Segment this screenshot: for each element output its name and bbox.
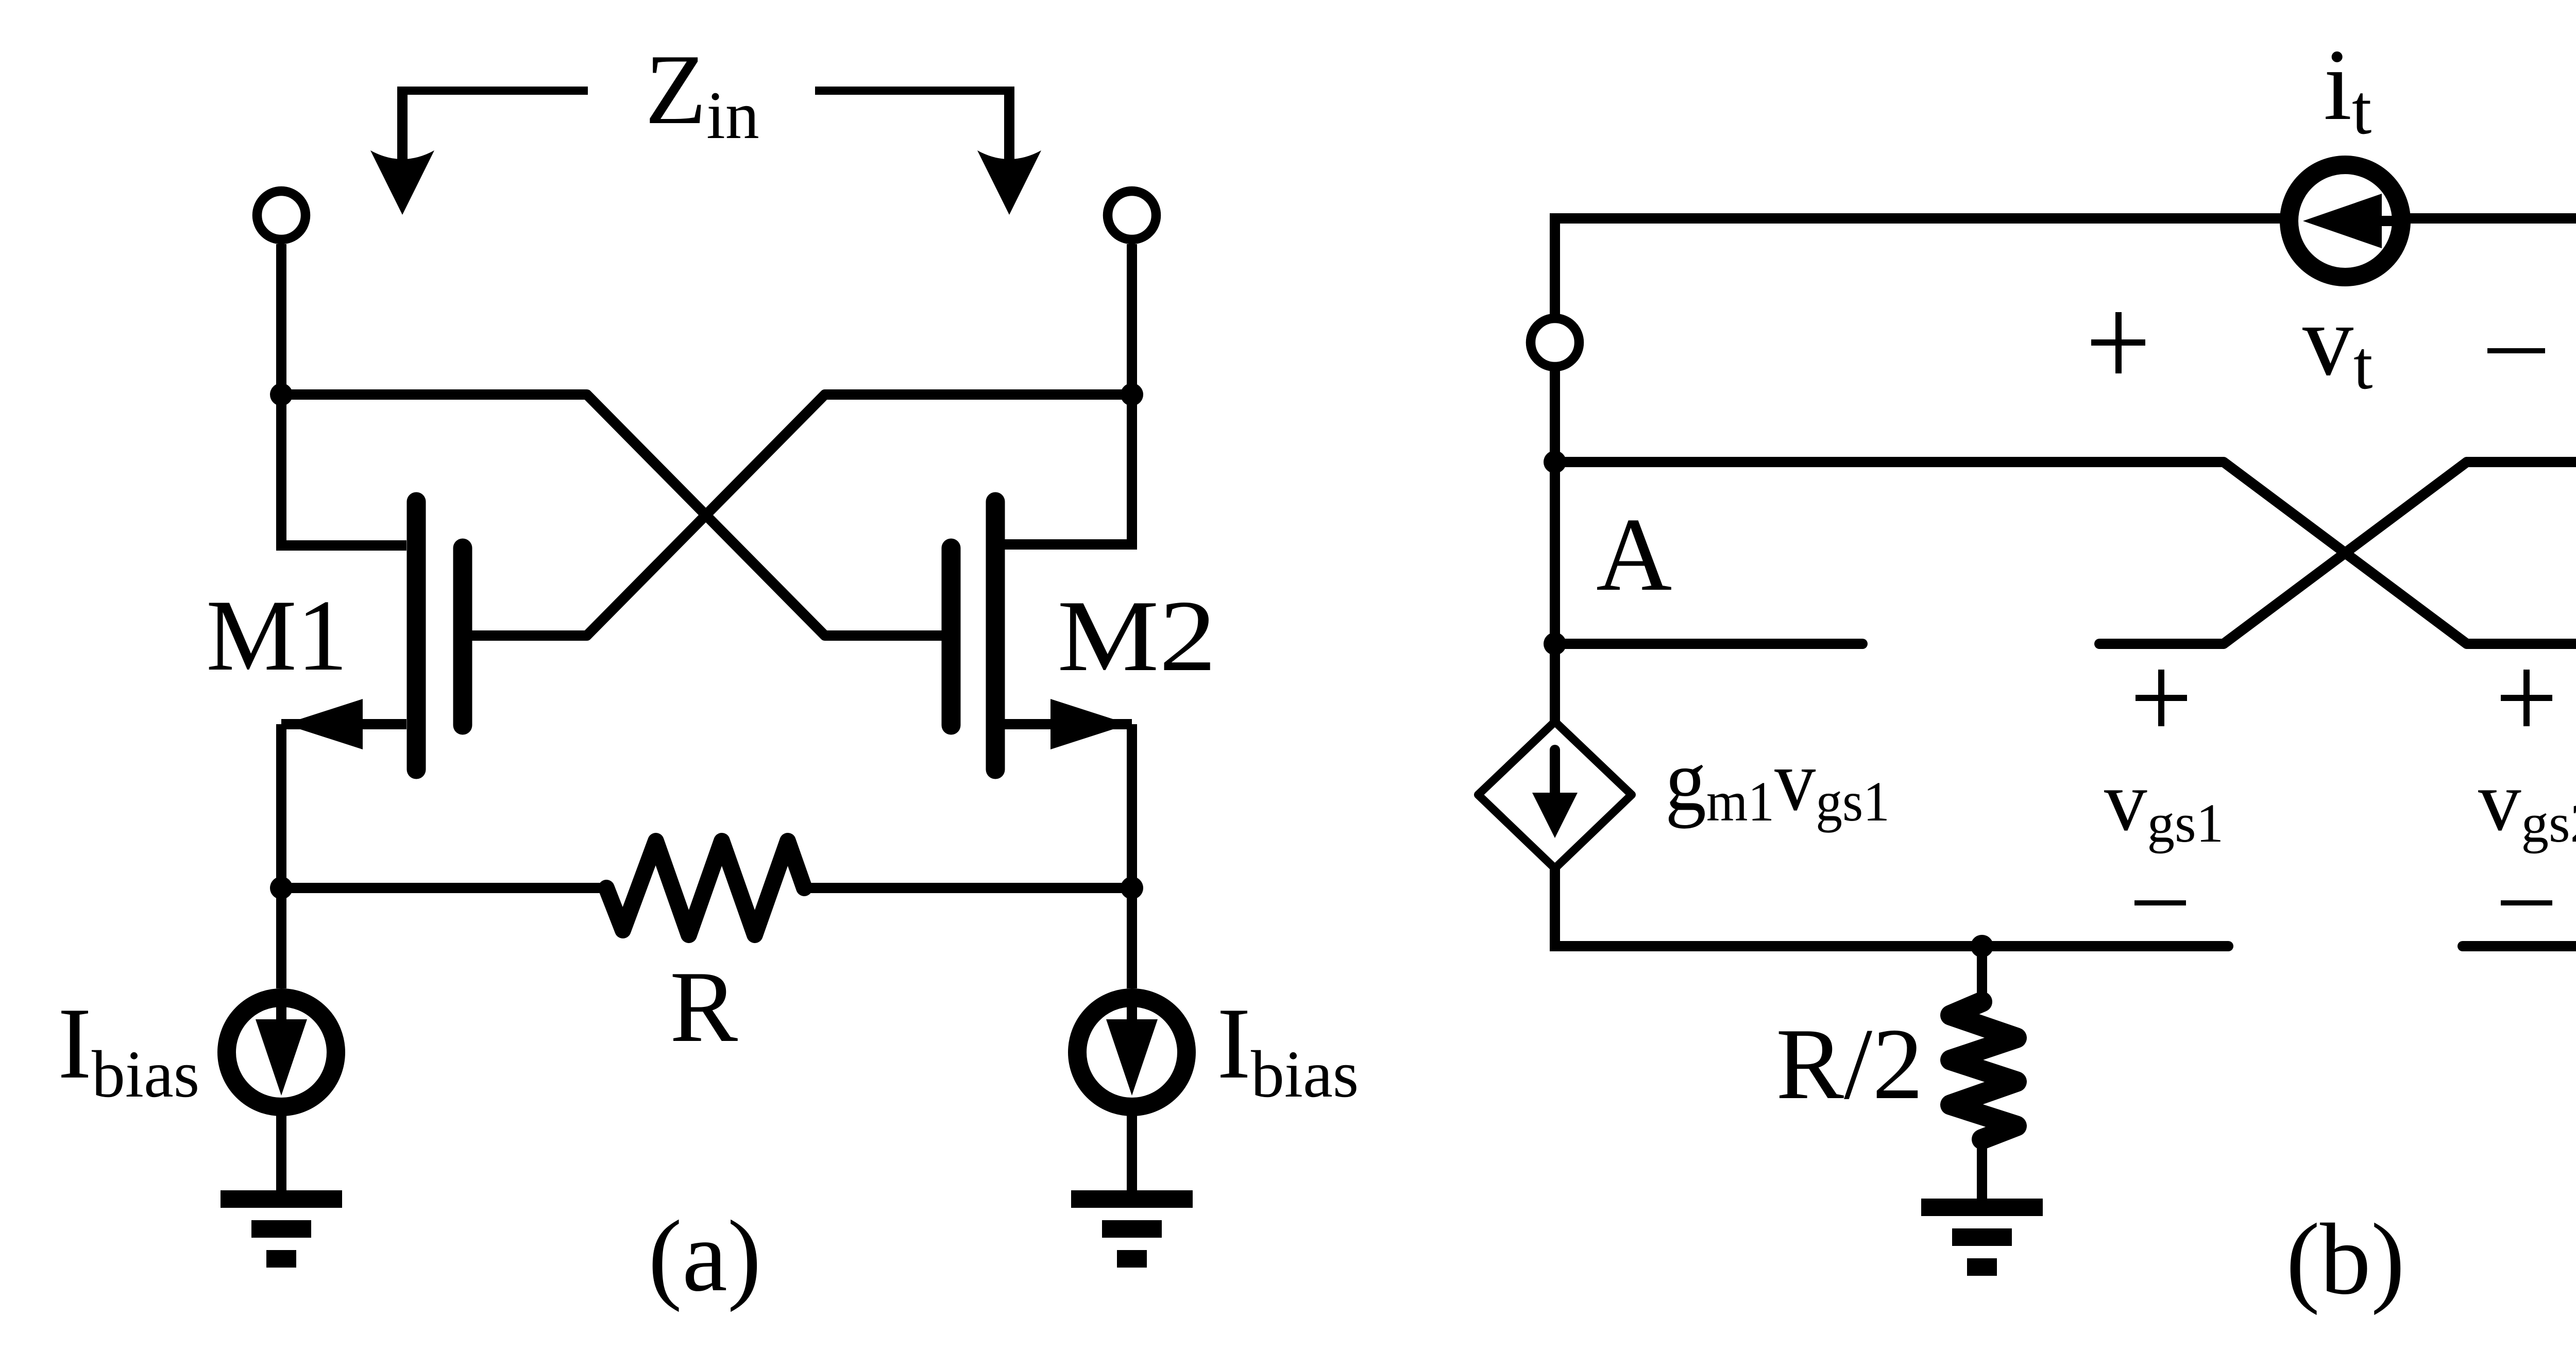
svg-text:vt: vt [2302,284,2373,404]
transistor M1 [281,395,463,769]
ground right (a) [1071,1190,1193,1268]
wire Ibias left to ground [276,1107,286,1192]
svg-text:(b): (b) [2286,1203,2405,1315]
wire bottom left (b) [1555,868,2228,946]
label minus vt [2487,348,2545,353]
terminal right (a) [1108,191,1156,395]
svg-text:vgs2: vgs2 [2478,754,2576,854]
wire node A to vgs2 gate [1555,462,2576,644]
svg-text:A: A [1596,497,1672,613]
label plus vt [2091,312,2145,373]
svg-text:Zin: Zin [645,34,759,153]
svg-text:vgs1: vgs1 [2104,754,2224,854]
wire source row right [804,883,1132,893]
current source it [2289,165,2401,277]
node source right [1121,877,1143,899]
svg-text:gm1vgs1: gm1vgs1 [1665,732,1890,833]
label minus vgs1 [2134,900,2186,905]
node M1 drain [270,383,293,406]
transistor M2 [951,395,1132,769]
wire top rail (b) [1555,218,2576,722]
wire M1 source down [276,724,286,988]
dependent source gm1vgs1 [1478,722,1632,868]
svg-text:it: it [2324,28,2371,149]
wire bottom right (b) [2463,869,2576,946]
terminal left (b) [1531,318,1579,367]
wire M2 drain to M1 gate [472,395,1132,636]
resistor R/2 left [1951,946,2016,1201]
wire Ibias right to ground [1127,1107,1137,1192]
Zin right measurement arrow [815,87,1041,215]
wire node A stub [1555,639,1862,649]
svg-text:(a): (a) [648,1200,761,1312]
current source Ibias left [227,998,336,1107]
label plus vgs2 [2501,670,2552,726]
ground left (b) [1921,1199,2043,1276]
Zin left measurement arrow [370,87,588,215]
node M2 drain [1121,383,1143,406]
terminal left (a) [257,191,306,395]
node R/2 left [1971,935,1993,957]
wire M1 drain to M2 gate [281,395,942,636]
wire source row left [281,883,606,893]
svg-text:Ibias: Ibias [1217,987,1359,1111]
label minus vgs2 [2501,900,2552,905]
resistor R [606,841,804,935]
svg-text:M2: M2 [1057,579,1216,692]
label plus vgs1 [2136,670,2187,726]
node A junction [1544,451,1566,473]
wire M2 source down [1127,724,1137,988]
current source Ibias right [1077,998,1187,1107]
node A stub junction [1544,632,1566,655]
svg-text:R/2: R/2 [1776,1007,1923,1120]
svg-text:Ibias: Ibias [58,987,199,1111]
svg-text:M1: M1 [206,579,348,692]
node source left [270,877,293,899]
wire node B to vgs1 gate [2099,462,2576,644]
ground left (a) [221,1190,342,1268]
svg-text:R: R [670,950,738,1063]
